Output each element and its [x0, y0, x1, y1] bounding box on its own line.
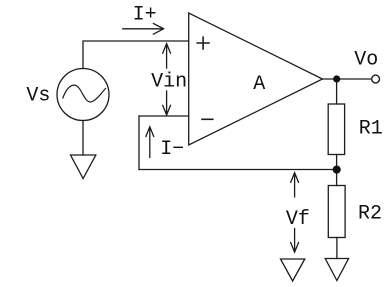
svg-text:Vo: Vo — [354, 48, 378, 71]
arrow Vf up — [291, 173, 299, 197]
wire R2 bottom to ground — [336, 238, 338, 259]
svg-text:Vf: Vf — [286, 208, 310, 231]
wire R1 bottom to node — [336, 155, 338, 170]
wire from Vs top to op-amp + input — [83, 41, 189, 69]
ground (below Vf arrow) — [281, 259, 305, 281]
svg-text:I−: I− — [160, 138, 184, 161]
resistor R1 — [328, 104, 344, 155]
wire op-amp output to Vo — [323, 78, 372, 80]
arrow I- — [146, 127, 154, 158]
wire feedback vertical — [138, 116, 140, 170]
svg-text:Vs: Vs — [26, 84, 50, 107]
wire feedback horizontal — [139, 169, 337, 171]
wire node down to R2 — [336, 170, 338, 186]
arrow Vf down — [291, 229, 299, 253]
svg-text:Vin: Vin — [151, 70, 187, 93]
wire from Vs bottom to ground — [82, 121, 84, 156]
op-amp - input mark — [202, 118, 213, 120]
node: R1/R2 junction — [333, 166, 341, 174]
svg-text:R2: R2 — [358, 202, 382, 225]
svg-text:R1: R1 — [359, 118, 383, 141]
arrow Vin up — [163, 44, 171, 68]
wire - input — [139, 115, 189, 117]
ground (below Vs) — [71, 155, 96, 179]
ground (below R2) — [325, 259, 348, 281]
resistor R2 — [328, 186, 345, 238]
op-amp + input mark — [197, 37, 209, 49]
arrow Vin down — [163, 91, 171, 115]
svg-text:A: A — [253, 73, 265, 96]
terminal Vo (open circle) — [372, 75, 380, 83]
op-amp U1 triangle — [189, 13, 323, 145]
voltage source Vs — [57, 69, 109, 121]
arrow I+ — [123, 24, 164, 35]
node: output junction — [333, 75, 340, 82]
svg-text:I+: I+ — [133, 4, 157, 27]
wire output node down to R1 — [336, 79, 338, 104]
